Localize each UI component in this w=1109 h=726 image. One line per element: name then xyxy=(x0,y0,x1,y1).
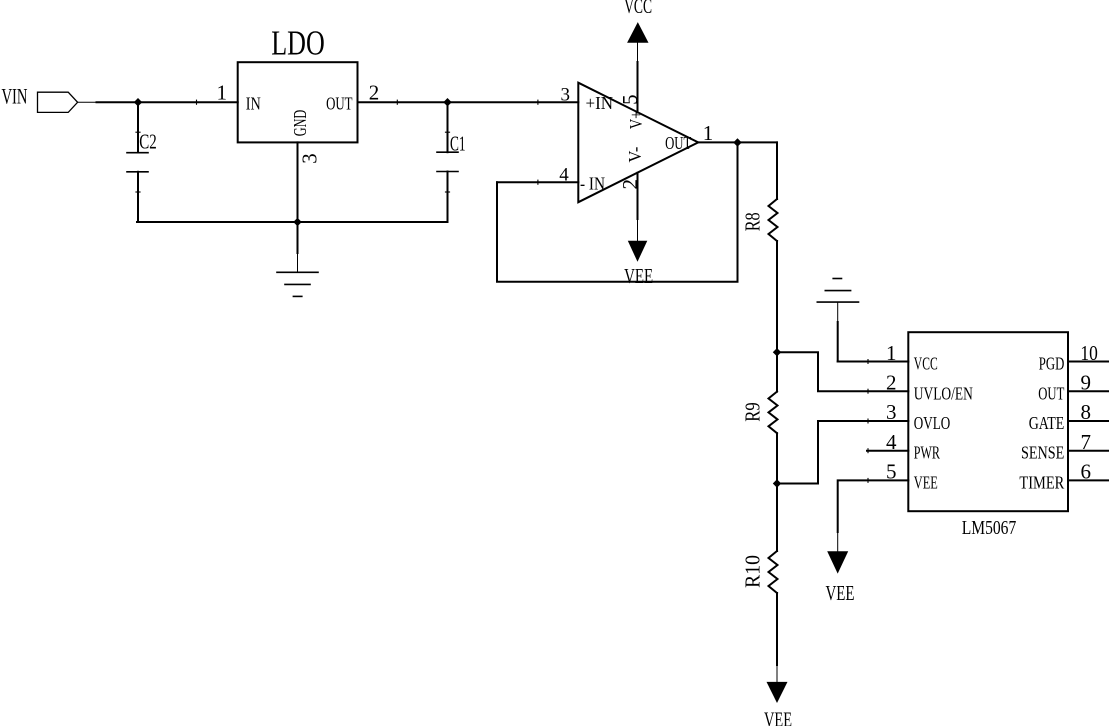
svg-text:C1: C1 xyxy=(450,132,466,156)
svg-text:OUT: OUT xyxy=(326,94,352,114)
svg-text:UVLO/EN: UVLO/EN xyxy=(914,383,973,403)
svg-text:3: 3 xyxy=(560,84,570,105)
svg-text:2: 2 xyxy=(886,371,897,395)
svg-text:3: 3 xyxy=(297,153,321,164)
svg-text:2: 2 xyxy=(618,179,642,190)
svg-text:TIMER: TIMER xyxy=(1019,472,1064,492)
svg-text:3: 3 xyxy=(886,400,897,424)
svg-text:GATE: GATE xyxy=(1029,413,1065,433)
svg-text:VEE: VEE xyxy=(764,707,792,726)
svg-text:V-: V- xyxy=(625,147,645,163)
svg-text:7: 7 xyxy=(1081,430,1092,454)
svg-text:VIN: VIN xyxy=(2,84,28,109)
svg-text:8: 8 xyxy=(1081,400,1092,424)
svg-text:OUT: OUT xyxy=(1038,383,1064,403)
svg-text:VEE: VEE xyxy=(826,581,855,605)
svg-text:4: 4 xyxy=(886,430,897,454)
svg-text:IN: IN xyxy=(246,94,261,114)
svg-text:2: 2 xyxy=(369,81,380,105)
svg-text:VEE: VEE xyxy=(914,472,938,492)
svg-text:OUT: OUT xyxy=(665,133,691,153)
svg-text:+IN: +IN xyxy=(586,93,614,113)
svg-text:9: 9 xyxy=(1081,371,1092,395)
svg-text:6: 6 xyxy=(1081,460,1092,484)
svg-text:VCC: VCC xyxy=(624,0,652,18)
svg-text:PGD: PGD xyxy=(1039,354,1065,374)
svg-text:- IN: - IN xyxy=(580,173,605,193)
svg-text:LM5067: LM5067 xyxy=(962,517,1017,539)
svg-text:R10: R10 xyxy=(741,555,765,588)
svg-text:OVLO: OVLO xyxy=(914,413,950,433)
svg-text:GND: GND xyxy=(290,110,310,137)
svg-text:VEE: VEE xyxy=(624,264,653,288)
svg-text:1: 1 xyxy=(703,121,714,145)
svg-text:R9: R9 xyxy=(741,402,765,422)
svg-text:V+: V+ xyxy=(626,111,646,129)
svg-text:1: 1 xyxy=(886,341,897,365)
svg-text:R8: R8 xyxy=(741,212,765,231)
svg-text:5: 5 xyxy=(886,460,897,484)
svg-text:1: 1 xyxy=(216,81,227,105)
svg-text:LDO: LDO xyxy=(271,24,325,63)
svg-text:SENSE: SENSE xyxy=(1021,443,1064,463)
svg-text:PWR: PWR xyxy=(914,443,940,463)
svg-text:VCC: VCC xyxy=(914,354,938,374)
svg-text:C2: C2 xyxy=(139,130,157,154)
svg-text:10: 10 xyxy=(1080,341,1097,365)
svg-text:4: 4 xyxy=(559,165,569,186)
svg-text:5: 5 xyxy=(618,94,642,105)
